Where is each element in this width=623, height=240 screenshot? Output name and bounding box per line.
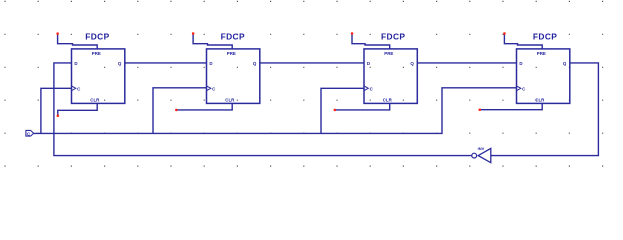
open-end marker U2 PRE (red square)	[192, 32, 195, 35]
wire U3 PRE net (from open end down to PRE pin)	[352, 33, 390, 49]
U4 body outline	[517, 49, 570, 104]
flip-flop U2 (FDCP D flip-flop)	[207, 31, 260, 103]
svg-text:FDCP: FDCP	[381, 31, 405, 41]
svg-text:INV: INV	[478, 146, 485, 151]
svg-text:C: C	[77, 87, 81, 92]
svg-text:CLR: CLR	[383, 97, 393, 102]
wire U4 PRE net (from open end down to PRE pin)	[504, 34, 542, 49]
wire U2 CLR net (from CLR pin down-left to open end)	[176, 103, 232, 110]
open-end marker U2 CLR (red square)	[175, 109, 178, 112]
svg-text:CLR: CLR	[535, 97, 545, 102]
wire Q1 to D2	[125, 62, 207, 64]
wire clock riser to U3 C pin	[321, 88, 364, 133]
svg-text:PRE: PRE	[537, 51, 546, 56]
svg-text:Q: Q	[118, 61, 122, 66]
open-end marker U1 CLR (red square)	[57, 115, 60, 118]
svg-text:Q: Q	[563, 61, 567, 66]
svg-text:Q: Q	[410, 61, 414, 66]
flip-flop U1 (FDCP D flip-flop)	[72, 31, 125, 103]
wire clock riser to U1 C pin	[41, 88, 72, 133]
open-end marker U1 PRE (red square)	[56, 32, 59, 35]
svg-text:C: C	[212, 87, 216, 92]
wire Q4 to inverter input	[491, 63, 599, 156]
svg-text:CLR: CLR	[90, 97, 100, 102]
svg-text:D: D	[209, 61, 212, 66]
svg-text:PRE: PRE	[384, 51, 393, 56]
svg-text:FDCP: FDCP	[533, 31, 557, 41]
wire U1 CLR net (from CLR pin down-left to open end)	[58, 103, 97, 115]
U2 body outline	[207, 49, 260, 104]
svg-text:D: D	[519, 61, 522, 66]
wire clock bus (port to corner, along bottom)	[34, 88, 517, 134]
open-end marker U4 CLR (red square)	[479, 109, 482, 112]
U1 body outline	[72, 49, 125, 104]
open-end marker U3 CLR (red square)	[334, 109, 337, 112]
flip-flop U4 (FDCP D flip-flop)	[517, 31, 570, 103]
U2 clock input triangle	[207, 86, 211, 91]
svg-text:FDCP: FDCP	[85, 31, 109, 41]
wire clock riser to U2 C pin	[153, 88, 207, 134]
svg-text:C: C	[522, 87, 526, 92]
inverter N1	[472, 146, 491, 163]
open-end marker U4 PRE (red square)	[503, 32, 506, 35]
svg-text:PRE: PRE	[92, 51, 101, 56]
wire U4 CLR net (from CLR pin down-left to open end)	[480, 103, 543, 109]
svg-text:D: D	[74, 61, 77, 66]
U3 body outline	[364, 49, 417, 104]
wire inverter output feedback to D1	[54, 63, 472, 156]
input port C (clock)	[26, 130, 34, 136]
U3 clock input triangle	[364, 86, 368, 91]
svg-text:PRE: PRE	[227, 51, 236, 56]
flip-flop U3 (FDCP D flip-flop)	[364, 31, 417, 103]
wire Q3 to D4	[417, 62, 516, 64]
wire Q2 to D3	[260, 62, 364, 64]
wire U1 PRE net (from open end down to PRE pin)	[58, 34, 98, 49]
U4 clock input triangle	[517, 86, 521, 91]
wire U3 CLR net (from CLR pin down-left to open end)	[335, 103, 390, 110]
svg-text:CLR: CLR	[225, 97, 235, 102]
wire U2 PRE net (from open end down to PRE pin)	[193, 34, 232, 49]
svg-text:Q: Q	[253, 61, 257, 66]
svg-text:FDCP: FDCP	[221, 31, 245, 41]
svg-text:D: D	[367, 61, 370, 66]
svg-text:C: C	[370, 87, 374, 92]
U1 clock input triangle	[72, 86, 76, 91]
open-end marker U3 PRE (red square)	[351, 32, 354, 35]
